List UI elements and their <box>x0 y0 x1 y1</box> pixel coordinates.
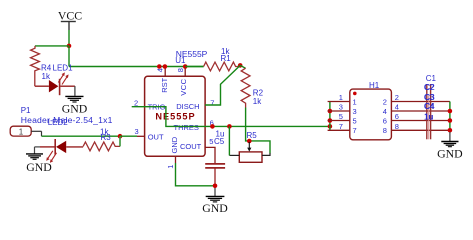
svg-text:VCC: VCC <box>58 9 82 23</box>
svg-text:1u: 1u <box>216 129 225 138</box>
svg-text:U1: U1 <box>175 56 186 65</box>
wire VCC down to top rail <box>68 46 70 67</box>
wire TRIG <box>132 107 330 127</box>
pin 3 stub <box>137 135 145 137</box>
svg-text:7: 7 <box>339 122 343 131</box>
svg-text:7: 7 <box>353 126 357 135</box>
op-amp U1 NE555P body <box>145 76 206 156</box>
connector H1 body <box>350 89 392 140</box>
H1 right pin stubs <box>391 102 450 131</box>
svg-text:7: 7 <box>210 98 214 107</box>
svg-text:THRES: THRES <box>174 123 199 132</box>
wire R2 bottom to wiper <box>246 108 270 154</box>
potentiometer R5 <box>229 139 270 163</box>
svg-text:4: 4 <box>383 107 387 116</box>
svg-text:GND: GND <box>202 201 228 215</box>
svg-text:5: 5 <box>209 137 213 146</box>
svg-text:C1: C1 <box>426 74 437 83</box>
wire VCC vertical <box>68 30 70 46</box>
node dots on top rail <box>157 64 162 69</box>
svg-text:1: 1 <box>166 165 175 169</box>
resistor R1 <box>185 66 203 68</box>
node GND junction <box>213 184 218 189</box>
node R5 branch dot <box>227 124 232 129</box>
wire R5 left to THRES <box>228 126 230 155</box>
wire P1 to OUT net <box>42 135 121 137</box>
LED D LED2 <box>40 139 83 163</box>
svg-text:GND: GND <box>170 136 179 153</box>
wire junction to R4 <box>35 45 69 47</box>
svg-text:GND: GND <box>26 160 52 174</box>
wire top rail <box>69 66 204 68</box>
wire C5 bottom <box>214 169 216 186</box>
svg-text:2: 2 <box>383 97 387 106</box>
svg-text:5: 5 <box>353 116 357 125</box>
node H1 feed dot <box>328 124 333 129</box>
svg-text:1k: 1k <box>253 97 262 106</box>
svg-text:8: 8 <box>383 126 387 135</box>
svg-text:P1: P1 <box>21 106 31 115</box>
svg-text:8: 8 <box>176 68 185 72</box>
svg-text:4: 4 <box>156 68 165 72</box>
wire DISCH to R1/R2 junction <box>205 65 240 105</box>
wire H1 left bus <box>329 102 331 131</box>
svg-text:2: 2 <box>134 98 138 107</box>
connector P1 <box>10 126 41 136</box>
svg-text:3: 3 <box>353 107 357 116</box>
resistor R2 <box>240 65 245 68</box>
svg-text:1: 1 <box>353 97 357 106</box>
H1 left pin stubs <box>328 102 350 131</box>
node dots on left bus <box>328 109 333 114</box>
pin 8 line <box>184 67 186 77</box>
ground for LED1 <box>62 86 88 115</box>
svg-text:1k: 1k <box>42 72 51 81</box>
svg-text:C3: C3 <box>425 93 436 102</box>
svg-text:R1: R1 <box>221 54 232 63</box>
capacitor bank C1-C4 plates <box>427 84 431 139</box>
svg-text:R5: R5 <box>247 131 258 140</box>
capacitor C5 <box>205 164 225 168</box>
svg-text:DISCH: DISCH <box>176 102 199 111</box>
svg-text:NE555P: NE555P <box>155 112 195 122</box>
ground under C5 <box>202 188 228 215</box>
svg-text:GND: GND <box>437 147 463 161</box>
svg-text:C4: C4 <box>425 102 436 111</box>
svg-text:1u: 1u <box>425 113 434 122</box>
LED D LED1 <box>35 72 75 95</box>
svg-text:1: 1 <box>19 127 24 136</box>
svg-text:1: 1 <box>339 93 343 102</box>
svg-text:VCC: VCC <box>179 78 188 95</box>
pin 1 wire <box>175 156 177 163</box>
ground for LED2 <box>26 147 52 174</box>
node R1 right dot <box>238 63 243 68</box>
wire OUT junction to pin3 <box>120 135 137 137</box>
node dots on right bus <box>448 109 453 114</box>
svg-text:1k: 1k <box>100 128 109 137</box>
wire H1 right bus <box>449 102 451 133</box>
svg-text:LED2: LED2 <box>48 118 69 127</box>
svg-text:RST: RST <box>160 77 169 92</box>
svg-text:3: 3 <box>339 103 343 112</box>
svg-text:GND: GND <box>62 101 88 115</box>
svg-text:LED1: LED1 <box>53 64 74 73</box>
svg-text:C5: C5 <box>214 137 225 146</box>
resistor R4 <box>31 46 40 86</box>
node pin6 dot <box>210 124 215 129</box>
pin 5 wire to C5 <box>205 147 215 163</box>
pin1 marker dot <box>353 92 357 96</box>
svg-text:H1: H1 <box>369 81 380 90</box>
svg-text:COUT: COUT <box>180 142 202 151</box>
svg-text:8: 8 <box>395 122 399 131</box>
svg-text:6: 6 <box>383 116 387 125</box>
power flag VCC <box>58 9 82 31</box>
svg-text:3: 3 <box>135 127 139 136</box>
ground right <box>437 132 463 161</box>
svg-text:5: 5 <box>339 112 343 121</box>
resistor R3 <box>83 142 120 151</box>
wire R3 up to OUT <box>119 136 121 146</box>
svg-text:OUT: OUT <box>148 133 164 142</box>
node OUT junction <box>118 134 123 139</box>
node VCC junction <box>67 44 72 49</box>
pin 4 line <box>164 67 166 77</box>
svg-text:C2: C2 <box>425 83 436 92</box>
